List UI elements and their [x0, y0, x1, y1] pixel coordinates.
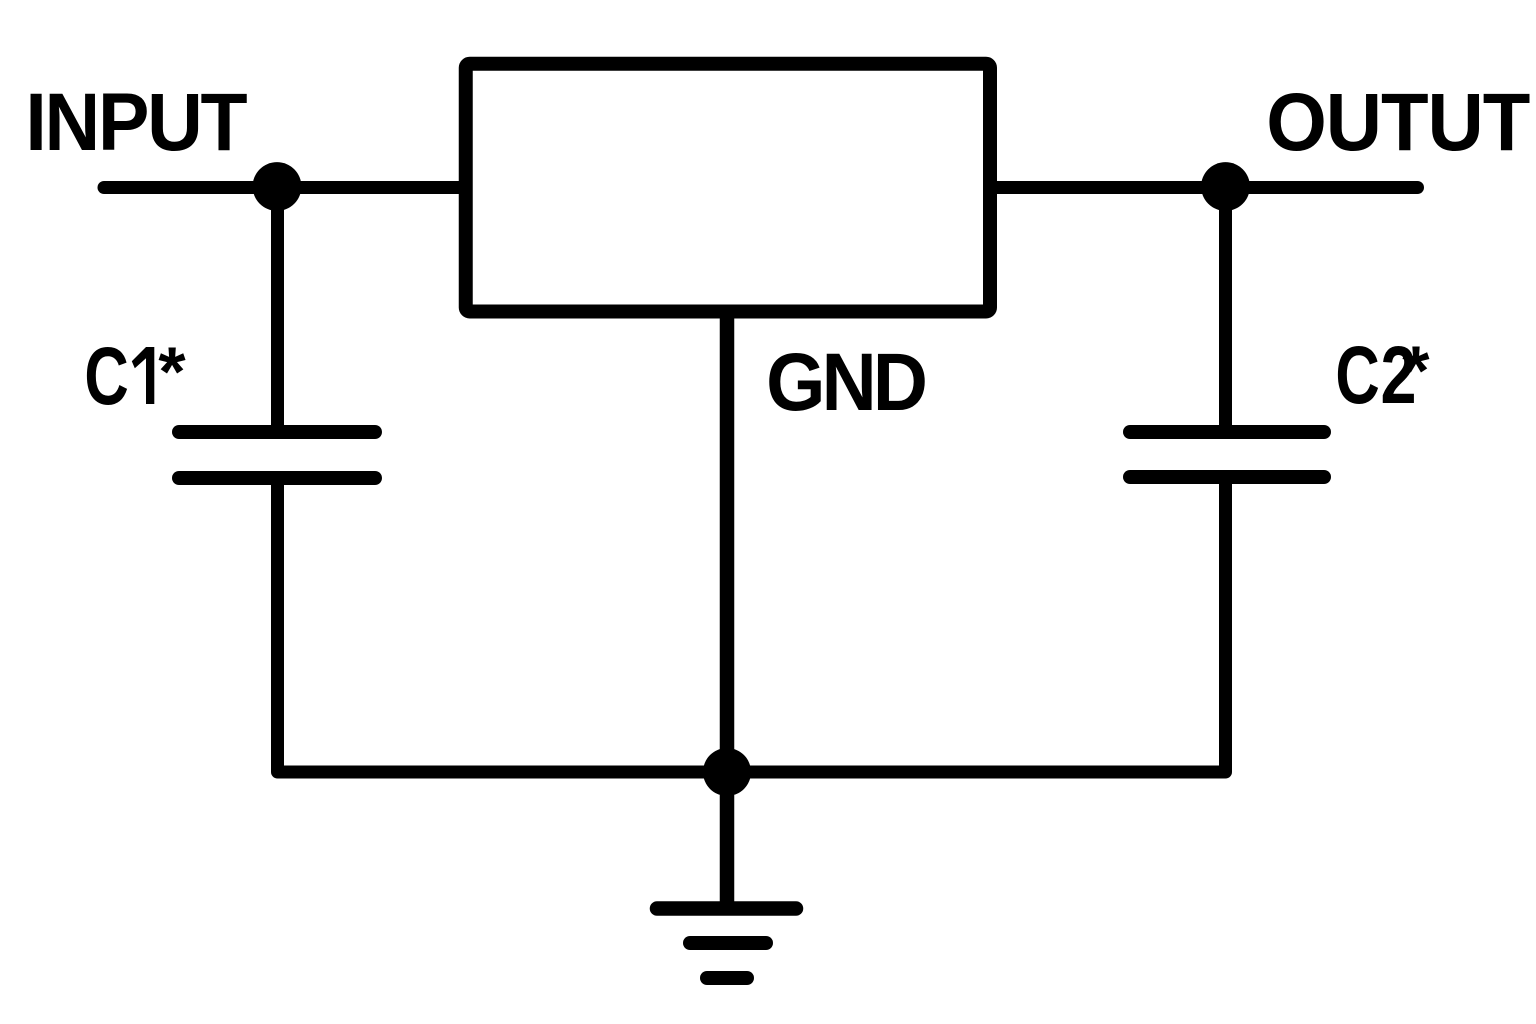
svg-text:INPUT: INPUT [25, 76, 247, 168]
wire ground stub [720, 772, 735, 908]
wire C1 bottom vertical + bottom horizontal [278, 477, 1226, 772]
svg-text:C: C [84, 330, 128, 422]
capacitor C2 label [1335, 329, 1430, 421]
capacitor C1 label [84, 330, 186, 422]
wire C2 top vertical [1219, 187, 1232, 430]
wire GND vertical from regulator [720, 306, 735, 772]
svg-text:*: * [1402, 332, 1430, 410]
node OUTUT label [1266, 76, 1529, 167]
node junction dot input [253, 162, 302, 211]
node INPUT label [25, 76, 247, 168]
wire input horizontal [104, 181, 462, 194]
svg-text:OUTUT: OUTUT [1266, 76, 1529, 167]
node junction dot ground [703, 748, 751, 796]
node GND label [766, 335, 925, 427]
wire C1 top vertical [271, 187, 284, 430]
capacitor C2 [1130, 432, 1324, 477]
svg-text:*: * [158, 333, 186, 411]
capacitor C1 [179, 432, 375, 478]
svg-text:GND: GND [766, 335, 925, 427]
wire output horizontal [993, 181, 1418, 194]
regulator U1 (box) [466, 64, 990, 312]
ground [657, 909, 796, 979]
node junction dot output [1201, 162, 1250, 211]
svg-text:C: C [1335, 329, 1379, 421]
